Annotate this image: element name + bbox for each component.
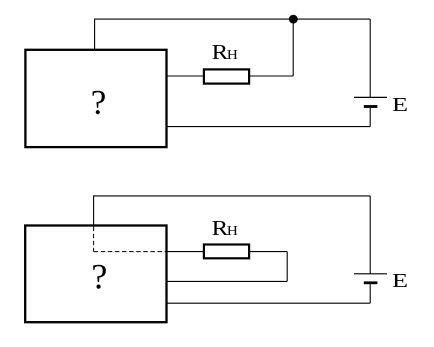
svg-text:R: R [212,40,229,64]
battery E (bottom): short thick negative plate [364,281,378,284]
svg-text:E: E [392,94,408,116]
battery E (top): short thick negative plate [364,105,378,108]
resistor Rн (bottom) body [204,245,249,259]
wire: bottom horizontal return (top circuit) [167,126,371,128]
svg-text:R: R [212,216,229,240]
dashed internal connection: vertical segment inside block [93,227,95,252]
svg-text:?: ? [91,83,107,122]
wire: top horizontal bus (bottom circuit) [94,195,371,197]
svg-text:E: E [392,270,408,292]
wire: battery bottom lead (bottom circuit) [369,284,371,303]
wire: vertical drop from top bus to block top (top circuit) [94,19,96,50]
wire: vertical from junction dot down to resistor lead level [292,19,294,76]
wire: loop return into block right side (bottom circuit) [167,280,288,282]
svg-text:?: ? [91,257,107,297]
resistor Rн (top) body [204,69,249,83]
wire: resistor left lead (top circuit) [167,75,205,77]
wire: battery bottom lead (top circuit) [369,108,371,127]
wire: vertical drop from top bus to block top (bottom circuit) [93,195,95,225]
block U1: unknown two-terminal network (top) [25,50,166,147]
svg-text:H: H [227,224,238,239]
wire: battery top lead, right vertical (bottom circuit) [369,196,371,274]
wire: top horizontal bus (top circuit) [95,18,371,20]
wire: loop vertical segment (bottom circuit) [286,252,288,282]
wire: resistor right lead to loop corner (bottom circuit) [250,251,288,253]
wire: resistor right lead (top circuit) [250,75,294,77]
battery E (top): long positive plate [354,96,387,98]
wire: bottom horizontal return (bottom circuit) [167,302,371,304]
battery E (bottom): long positive plate [354,273,387,275]
wire: battery top lead, right vertical (top circuit) [369,19,371,97]
block U2: unknown two-terminal network (bottom) [25,226,166,323]
dashed internal connection: horizontal segment inside block [94,251,166,253]
svg-text:H: H [227,48,238,63]
wire: resistor left lead (bottom circuit) [167,251,205,253]
node: junction dot on top bus [289,15,298,24]
